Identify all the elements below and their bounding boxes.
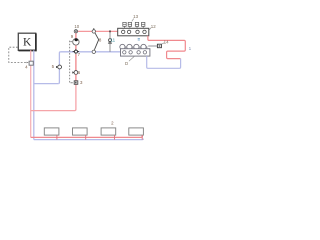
motor 9: [73, 38, 79, 45]
wire red branch to chain: [31, 84, 76, 110]
svg-text:13: 13: [133, 14, 138, 19]
svg-text:12: 12: [151, 24, 156, 29]
pin heater 4: [141, 135, 143, 140]
wire blue branch horizontal y83.6: [34, 83, 58, 85]
wire red vertical from K: [30, 50, 32, 137]
svg-text:D: D: [125, 61, 128, 66]
connector 4 on K wires: [29, 61, 33, 65]
wire red bus y31.4: [78, 30, 118, 32]
fuse F4: [142, 22, 145, 28]
connector 6: [73, 71, 78, 75]
connector 3: [74, 81, 78, 85]
wire blue vertical x59.4: [58, 52, 60, 84]
wire red chain circ6-sq3: [75, 74, 77, 80]
leader 12: [149, 28, 151, 31]
fuse F2: [128, 22, 131, 28]
heater rect 1: [44, 128, 59, 135]
wire red chain lamp-motor: [75, 33, 77, 38]
wire blue vertical from K: [33, 50, 35, 139]
svg-text:10: 10: [74, 24, 79, 29]
leader D: [129, 56, 134, 61]
leader 14: [162, 43, 165, 44]
fuse box E: [118, 28, 149, 36]
svg-text:11: 11: [111, 38, 116, 43]
heater rect 3: [101, 128, 116, 135]
fuse F1: [123, 22, 126, 28]
lamp 10: [74, 30, 77, 33]
wire red chain conn7-circ6: [75, 54, 77, 70]
relay K box: [18, 33, 36, 50]
svg-text:K: K: [23, 37, 32, 49]
pin heater 1: [56, 135, 58, 140]
heater rect 4: [129, 128, 144, 135]
connector 5 on blue vertical: [56, 65, 61, 69]
pin mark blue: [138, 39, 140, 40]
wire red bottom bus: [31, 135, 143, 137]
connector 7: [73, 49, 80, 54]
pin heater 3: [114, 135, 116, 140]
leader 13: [132, 19, 134, 22]
svg-text:14: 14: [164, 40, 169, 45]
switch 8: [92, 28, 99, 53]
dashed link chain: [70, 41, 73, 83]
dashed link K to connector 4: [9, 47, 29, 63]
horn 11: [109, 30, 112, 51]
pin heater 2: [85, 135, 87, 140]
wire blue D box right loop: [147, 56, 181, 68]
stub to connector 14: [148, 45, 157, 47]
wire blue bus y51.8: [61, 51, 121, 53]
wire blue bottom bus: [34, 139, 144, 140]
wire red chain motor-conn7: [75, 45, 77, 50]
fuse F3: [135, 22, 138, 28]
connector block D: [120, 44, 150, 56]
heater rect 2: [73, 128, 88, 135]
connector 14: [157, 44, 161, 48]
wire red from E box right side: [148, 36, 185, 59]
